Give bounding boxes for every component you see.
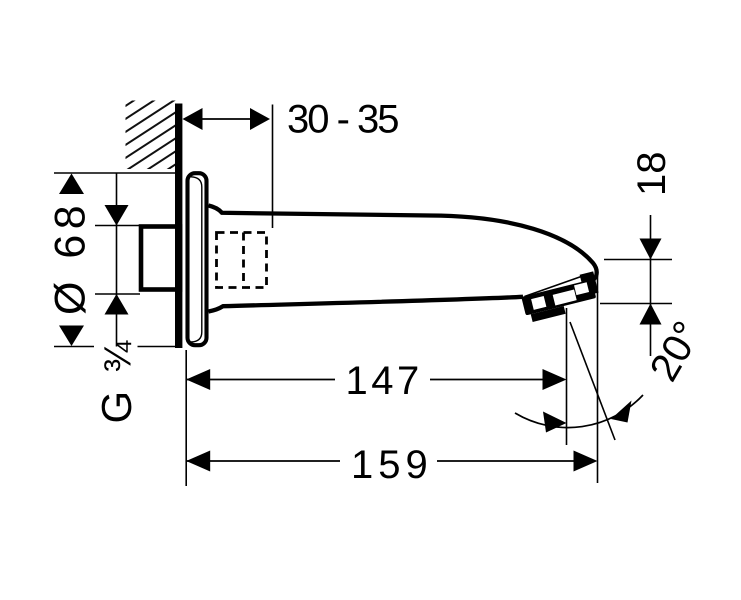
dim 18: arrow down — [640, 239, 662, 260]
svg-text:147: 147 — [346, 359, 423, 403]
wall hatching — [110, 71, 180, 234]
arc arrow at angled line — [611, 401, 632, 423]
dim 30-35: dimension line — [199, 118, 253, 120]
dim 159: left arrow — [186, 451, 210, 472]
left extension line below flange — [185, 350, 187, 486]
svg-text:¾: ¾ — [98, 340, 140, 373]
dia68 bottom arrow (down) — [59, 326, 84, 347]
spray direction angled line — [570, 322, 615, 440]
svg-text:G: G — [93, 391, 140, 424]
dim 159: dimension line — [186, 460, 340, 462]
block dim arrow down — [105, 205, 129, 226]
svg-text:159: 159 — [351, 443, 433, 487]
dim 147: left arrow — [186, 369, 210, 390]
block bottom extension tick — [95, 293, 140, 295]
dim 18: arrow up — [640, 304, 662, 325]
dim 159: right arrow — [574, 451, 598, 472]
extension line B from spout tip — [597, 270, 599, 483]
inner dimension line (block) — [116, 173, 118, 347]
dim 18: top extension line — [604, 259, 672, 261]
dim 30-35: right arrow — [250, 108, 270, 130]
angle arc — [515, 395, 643, 428]
dia68 top arrow (up) — [59, 174, 84, 195]
svg-text:30 - 35: 30 - 35 — [287, 98, 398, 142]
spout body top edge — [209, 206, 597, 283]
extension line A from outlet — [566, 308, 568, 445]
hidden aerator insert (dashed) — [217, 233, 267, 288]
dim 18: bottom extension line — [600, 303, 672, 305]
svg-text:20°: 20° — [642, 314, 710, 388]
dim 147: dimension line — [186, 379, 335, 381]
block dim arrow up — [105, 294, 129, 315]
dim 147: right arrow — [543, 369, 567, 390]
svg-text:Ø 68: Ø 68 — [47, 200, 95, 315]
block top extension tick — [95, 225, 140, 227]
wall line — [175, 104, 182, 349]
escutcheon flange outer — [188, 173, 207, 345]
arc arrow at vertical line — [543, 412, 567, 433]
dim 30-35: extension line right — [272, 105, 274, 229]
escutcheon flange inner contour — [191, 177, 202, 342]
dim 18: dimension line — [650, 215, 652, 356]
dim 30-35: left arrow — [183, 108, 203, 130]
outlet housing — [519, 271, 601, 323]
spout body bottom edge — [209, 297, 524, 312]
flange bottom extension line (broken by 3/4 text) — [54, 346, 94, 348]
connector block G3/4 — [141, 227, 180, 290]
spout underside thin edge line — [525, 273, 593, 297]
svg-text:18: 18 — [630, 152, 674, 197]
flange top extension line — [54, 172, 182, 174]
